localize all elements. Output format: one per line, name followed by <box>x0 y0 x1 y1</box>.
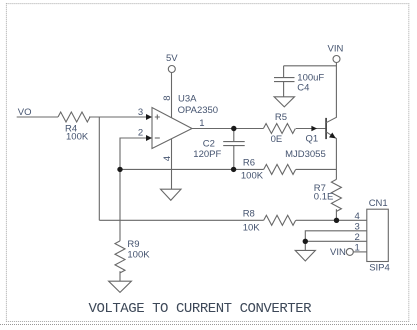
resistor R7 <box>331 179 341 211</box>
svg-text:8: 8 <box>162 95 173 100</box>
transistor Q1 collector <box>326 63 336 123</box>
svg-text:R9: R9 <box>127 239 139 250</box>
op-amp U3A triangle <box>152 108 192 149</box>
svg-text:CN1: CN1 <box>369 198 388 209</box>
svg-text:2: 2 <box>138 127 143 138</box>
wire pin 8 to 5V <box>171 73 173 118</box>
svg-text:0E: 0E <box>271 134 283 145</box>
svg-text:R8: R8 <box>243 208 255 219</box>
svg-text:VIN: VIN <box>328 44 344 55</box>
svg-text:VOLTAGE TO CURRENT CONVERTER: VOLTAGE TO CURRENT CONVERTER <box>89 301 313 317</box>
svg-text:10K: 10K <box>243 222 261 233</box>
wire R4 to op-amp + <box>89 116 147 118</box>
op-amp - symbol <box>155 137 160 139</box>
svg-text:C4: C4 <box>297 82 309 93</box>
wire R7 to node <box>335 209 337 220</box>
svg-text:120PF: 120PF <box>193 149 221 160</box>
wire CN1 pin 1 <box>353 251 367 253</box>
VIN terminal circle <box>333 56 340 63</box>
svg-text:4: 4 <box>355 211 360 222</box>
ground under R9 <box>109 281 132 292</box>
capacitor C4 <box>274 66 295 97</box>
svg-text:100K: 100K <box>127 250 150 261</box>
svg-text:Q1: Q1 <box>306 133 319 144</box>
junction node output/C2 <box>231 126 236 131</box>
wire branch node A down <box>98 117 100 220</box>
svg-text:5V: 5V <box>166 53 178 64</box>
connector CN1 body <box>367 209 389 261</box>
wire R8 to CN1 pin 4 <box>296 219 367 221</box>
op-amp + symbol <box>155 115 160 120</box>
wire R5 to Q1 base <box>296 128 326 130</box>
svg-text:SIP4: SIP4 <box>369 263 390 274</box>
resistor R6 <box>264 164 296 174</box>
wire R6 to emitter node <box>296 168 337 170</box>
svg-text:4: 4 <box>162 156 173 161</box>
arrowhead op-amp pin 3 <box>146 114 152 120</box>
arrowhead Q1 emitter <box>329 133 336 139</box>
svg-text:0.1E: 0.1E <box>314 192 334 203</box>
transistor Q1 emitter <box>326 132 336 180</box>
svg-text:3: 3 <box>355 221 360 232</box>
svg-text:1: 1 <box>199 118 204 129</box>
ground under CN1 <box>295 250 315 261</box>
svg-text:3: 3 <box>138 107 143 118</box>
wire to R8 <box>99 219 263 221</box>
transistor Q1 base bar <box>325 118 327 139</box>
capacitor C2 <box>223 129 245 170</box>
resistor R8 <box>264 215 296 225</box>
wire R9 to ground <box>119 271 121 281</box>
resistor R4 <box>58 112 90 122</box>
wire VIN rail to C4 <box>284 65 337 67</box>
wire CN1 pin 2 <box>305 240 367 242</box>
svg-text:VO: VO <box>18 107 32 118</box>
wire op-amp - input <box>120 138 147 241</box>
resistor R5 <box>263 124 295 134</box>
svg-text:100K: 100K <box>241 170 264 181</box>
arrowhead op-amp pin 2 <box>146 135 152 141</box>
wire pin 4 down <box>171 139 173 190</box>
resistor R9 <box>115 241 125 273</box>
5V terminal circle <box>168 66 175 73</box>
junction node emitter/R7/R8 <box>334 218 339 223</box>
VIN terminal circle bottom <box>346 248 353 255</box>
svg-text:R6: R6 <box>243 157 255 168</box>
wire op-amp output <box>192 128 263 130</box>
svg-text:1: 1 <box>355 242 360 253</box>
svg-text:MJD3055: MJD3055 <box>285 149 326 160</box>
ground under C4 <box>274 97 294 107</box>
svg-text:U3A: U3A <box>178 94 197 105</box>
svg-text:VIN: VIN <box>330 247 346 258</box>
svg-text:OPA2350: OPA2350 <box>178 105 219 116</box>
arrowhead Q1 base <box>311 126 317 132</box>
wire CN1 pin 3 <box>305 231 367 242</box>
wire pin2 node to ground <box>304 241 306 250</box>
svg-text:2: 2 <box>355 232 360 243</box>
wire feedback line <box>120 168 264 170</box>
svg-text:R5: R5 <box>275 112 287 123</box>
wire VO lead <box>17 116 58 118</box>
junction node inverting input <box>117 167 122 172</box>
junction node CN1 ground <box>303 239 308 244</box>
ground under op-amp <box>161 189 182 200</box>
junction node feedback/C2 <box>231 167 236 172</box>
svg-text:100K: 100K <box>66 131 89 142</box>
